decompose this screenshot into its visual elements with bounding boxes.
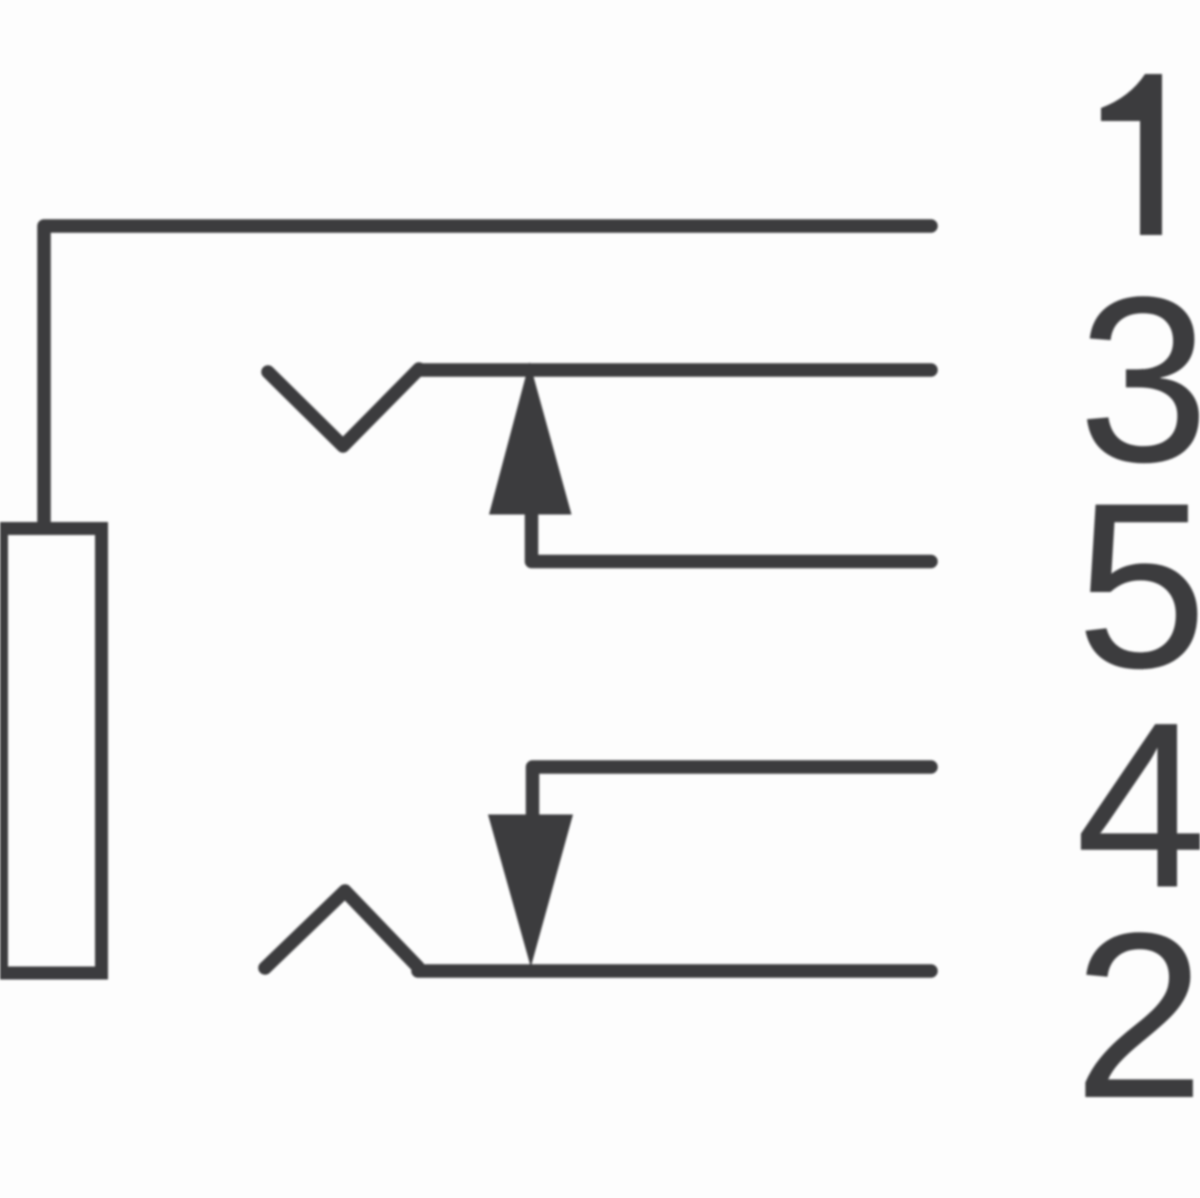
wire pin 2 — [418, 964, 931, 978]
up arrow contact — [489, 362, 572, 515]
pin label 1 — [1101, 74, 1162, 235]
wire pin 3 — [419, 363, 931, 377]
wire pin 4 — [533, 767, 932, 818]
down arrow contact — [488, 815, 573, 968]
wire pin 1 — [44, 226, 931, 526]
pin 2 switch lever — [265, 891, 418, 968]
pin 3 switch lever — [268, 369, 419, 446]
svg-text:2: 2 — [1074, 884, 1200, 1148]
wire pin 5 — [532, 510, 932, 562]
jack body rectangle — [2, 529, 102, 974]
